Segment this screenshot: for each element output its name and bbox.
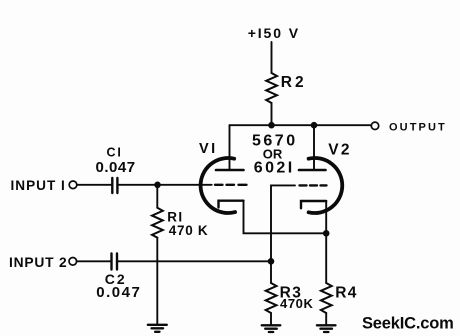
label OUTPUT xyxy=(389,122,447,134)
label V1 xyxy=(199,141,218,157)
label V2 xyxy=(328,141,351,158)
cathode V2 xyxy=(301,201,326,208)
wire junction to R3 xyxy=(270,261,272,283)
ground under R3 xyxy=(262,325,281,332)
junction dot R2/rail xyxy=(268,122,275,129)
svg-text:V2: V2 xyxy=(328,141,351,158)
watermark SeekIC.com xyxy=(362,315,454,333)
wire grid node down to R1 xyxy=(156,185,158,208)
svg-text:R2: R2 xyxy=(281,74,307,91)
wire R2 bottom to plate rail xyxy=(271,103,273,125)
svg-text:VI: VI xyxy=(199,141,218,157)
junction dot cathode/R4 xyxy=(323,230,330,237)
terminal INPUT 2 xyxy=(69,258,77,266)
svg-text:OUTPUT: OUTPUT xyxy=(389,122,447,134)
resistor R4 xyxy=(321,283,332,313)
junction dot INPUT2/R3 xyxy=(268,258,275,265)
svg-text:+I50 V: +I50 V xyxy=(248,25,300,41)
svg-text:RI: RI xyxy=(167,209,184,224)
wire R1 bottom to ground xyxy=(156,238,158,324)
svg-text:470K: 470K xyxy=(280,296,313,311)
svg-text:602I: 602I xyxy=(254,160,295,177)
resistor R1 xyxy=(152,208,163,238)
capacitor C1 xyxy=(112,178,117,193)
wire V2 plate lead xyxy=(313,125,315,169)
capacitor C2 xyxy=(112,254,118,270)
wire V1 plate lead xyxy=(229,125,231,169)
label R2 xyxy=(281,74,307,91)
label R1 470K xyxy=(167,209,208,238)
junction dot V1 grid node xyxy=(154,182,161,189)
label R4 xyxy=(335,285,357,302)
svg-text:0.047: 0.047 xyxy=(96,159,136,176)
terminal OUTPUT xyxy=(371,122,378,129)
wire V2 grid to lead corner xyxy=(271,185,295,261)
svg-text:R4: R4 xyxy=(335,285,357,302)
grid V2 dashed xyxy=(300,184,327,186)
wire R3 bottom to ground xyxy=(270,313,272,324)
label C2 xyxy=(96,271,141,301)
tube V1 envelope xyxy=(201,158,236,213)
label tube type 5670 OR 6021 xyxy=(252,133,298,177)
svg-text:INPUT 2: INPUT 2 xyxy=(9,255,68,270)
resistor R3 xyxy=(266,283,277,313)
terminal INPUT 1 xyxy=(69,181,77,189)
wire +150V supply lead down to R2 xyxy=(271,42,273,73)
svg-text:CI: CI xyxy=(107,146,123,160)
resistor R2 xyxy=(266,73,277,103)
label INPUT 1 xyxy=(11,178,66,193)
label R3 470K xyxy=(280,285,314,311)
wire plate rail xyxy=(230,124,372,126)
ground under R1 xyxy=(148,325,167,332)
label INPUT 2 xyxy=(9,255,68,270)
wire R4 bottom to ground xyxy=(325,313,327,324)
wire V1 cathode lead xyxy=(244,201,327,234)
grid V1 dashed xyxy=(215,184,247,186)
wire INPUT2 to junction xyxy=(77,260,271,262)
junction dot V2 plate/rail xyxy=(311,122,318,129)
tube V2 envelope xyxy=(309,158,343,213)
wire V2 cathode lead xyxy=(325,201,327,283)
wire INPUT1 to V1 grid xyxy=(77,184,212,186)
svg-text:470 K: 470 K xyxy=(169,223,209,238)
ground under R4 xyxy=(317,325,336,332)
svg-text:SeekIC.com: SeekIC.com xyxy=(362,315,454,333)
label C1 xyxy=(96,146,136,176)
svg-text:0.047: 0.047 xyxy=(96,284,141,301)
node +150V power label xyxy=(248,25,300,41)
plate bar V2 xyxy=(299,169,326,172)
svg-text:INPUT I: INPUT I xyxy=(11,178,66,193)
cathode V1 xyxy=(219,201,244,208)
plate bar V1 xyxy=(216,169,244,172)
